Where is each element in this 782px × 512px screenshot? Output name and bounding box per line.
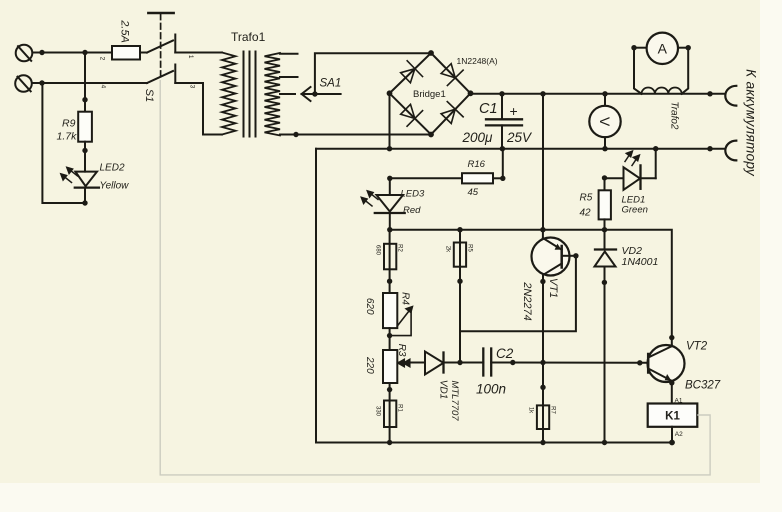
svg-text:R4: R4: [399, 292, 410, 305]
LED LED2: [75, 172, 99, 203]
selector SA1 arrow: [302, 87, 341, 101]
relay coil K1: [648, 404, 698, 443]
bias rail y230: [390, 230, 672, 346]
left control-loop vertical: [315, 149, 317, 443]
ammeter right lead down: [682, 48, 689, 94]
svg-text:330: 330: [374, 406, 380, 417]
wire VD1 node to C2: [460, 362, 483, 364]
bottom rail: [316, 442, 672, 444]
svg-text:R3: R3: [396, 344, 407, 357]
svg-text:+: +: [510, 103, 518, 119]
transformer Trafo2 winding humps: [642, 87, 682, 93]
svg-text:200μ: 200μ: [462, 130, 494, 145]
svg-text:2.5A: 2.5A: [119, 19, 131, 43]
wire VT1 base loop: [460, 256, 576, 331]
svg-text:Red: Red: [403, 205, 421, 216]
transformer Trafo1 primary winding: [222, 53, 236, 135]
wire LED3 top from R16: [389, 178, 391, 195]
svg-text:K1: K1: [665, 411, 680, 423]
wire secondary bottom to bridge: [280, 134, 431, 136]
svg-text:Green: Green: [622, 205, 648, 216]
svg-text:2k: 2k: [444, 246, 450, 253]
svg-text:LED3: LED3: [401, 189, 425, 200]
svg-text:42: 42: [580, 208, 592, 219]
transformer Trafo1 secondary winding: [265, 53, 281, 136]
output connector top: [725, 86, 736, 106]
svg-text:R5: R5: [580, 193, 593, 204]
svg-text:25V: 25V: [506, 130, 533, 145]
ammeter left lead down: [634, 48, 642, 94]
svg-text:S1: S1: [143, 89, 155, 102]
potentiometer R4: [383, 293, 397, 350]
svg-text:C2: C2: [496, 346, 514, 361]
bridge diode bottom-left: [398, 102, 423, 127]
wire R3 wiper to VD1: [399, 362, 425, 364]
svg-text:1k: 1k: [527, 407, 533, 414]
LED2 emission arrows: [61, 167, 78, 182]
secondary tap stub top: [280, 53, 298, 55]
potentiometer R3: [383, 350, 397, 401]
svg-text:Trafo1: Trafo1: [231, 30, 266, 44]
LED1 emission arrows: [625, 151, 639, 165]
svg-text:LED2: LED2: [100, 163, 125, 174]
svg-text:C1: C1: [479, 101, 498, 117]
svg-text:3: 3: [188, 85, 195, 89]
bridge Bridge1 diamond edges: [390, 53, 471, 135]
svg-text:VT2: VT2: [686, 341, 708, 353]
svg-text:1N4001: 1N4001: [622, 256, 659, 268]
wire LED2 return loop: [42, 83, 85, 203]
svg-text:1: 1: [187, 55, 194, 59]
transistor VT2: [648, 345, 685, 404]
svg-text:1.7k: 1.7k: [57, 131, 78, 143]
output connector bottom: [725, 141, 736, 161]
svg-text:VT1: VT1: [547, 278, 559, 298]
wire VT1 collector supply: [542, 94, 544, 230]
diode VD2: [595, 230, 617, 443]
relay control link wire (gray): [160, 80, 710, 475]
svg-text:680: 680: [374, 245, 380, 256]
wire bridge left vertex down to minus rail: [389, 93, 391, 148]
svg-text:R5: R5: [466, 244, 472, 252]
svg-text:R9: R9: [62, 118, 76, 130]
bridge diode top-left: [398, 61, 423, 86]
resistor R16: [390, 149, 503, 184]
switch S1 mechanical link dashed: [160, 14, 162, 80]
wire line2 terminal to switch: [32, 82, 147, 84]
svg-text:Bridge1: Bridge1: [413, 89, 446, 100]
switch S1 pole 1: [147, 35, 222, 53]
svg-text:220: 220: [364, 356, 375, 374]
R3 wiper arrows: [398, 359, 410, 366]
LED LED3: [375, 195, 405, 230]
LED LED1: [605, 149, 656, 190]
plus rail: [471, 93, 726, 95]
resistor R9: [78, 53, 92, 172]
resistor R8 emitter: [537, 405, 549, 442]
svg-text:SA1: SA1: [320, 78, 342, 90]
ammeter PA1: [634, 33, 688, 64]
svg-text:BC327: BC327: [685, 380, 721, 392]
switch S1 actuator T-bar: [148, 12, 173, 15]
svg-text:К аккумулятору: К аккумулятору: [743, 69, 758, 177]
svg-text:MTL7707: MTL7707: [449, 380, 460, 421]
input terminal X1: [16, 45, 33, 62]
secondary tap stub selected: [280, 93, 295, 95]
wire C2 to VT2 base: [491, 362, 648, 364]
svg-text:VD1: VD1: [438, 380, 449, 399]
wire switch pole2 to primary bottom: [203, 83, 222, 135]
bridge diode top-right: [438, 61, 463, 86]
bridge diode bottom-right: [438, 102, 463, 127]
capacitor C2: [483, 349, 491, 376]
resistor R7 bias: [454, 230, 466, 363]
secondary tap stub middle: [280, 76, 298, 78]
R4 wiper arm: [390, 307, 413, 336]
svg-text:620: 620: [364, 298, 375, 315]
minus rail: [316, 148, 726, 150]
svg-text:Yellow: Yellow: [100, 181, 130, 192]
svg-text:A: A: [658, 41, 668, 57]
wire line1 terminal to fuse: [33, 52, 113, 54]
transformer Trafo1 core: [244, 52, 256, 137]
svg-text:4: 4: [99, 85, 106, 89]
input terminal X2: [15, 75, 32, 92]
svg-text:45: 45: [468, 187, 479, 198]
switch S1 pole 2: [147, 65, 203, 84]
resistor R1: [384, 401, 396, 443]
svg-text:A1: A1: [675, 398, 683, 405]
voltmeter PV1: [589, 94, 620, 149]
svg-text:V: V: [597, 117, 613, 127]
capacitor C1: [486, 94, 522, 149]
diode VD1: [425, 352, 460, 375]
svg-text:R2: R2: [397, 244, 403, 252]
resistor R5: [599, 178, 611, 230]
svg-text:Trafo2: Trafo2: [668, 101, 679, 130]
resistor R2: [384, 230, 396, 293]
wire SA1 to bridge top: [315, 53, 431, 94]
svg-text:R1: R1: [397, 404, 403, 412]
svg-text:2N2274: 2N2274: [521, 281, 533, 321]
transistor VT1: [532, 230, 576, 406]
fuse FU1 2.5A: [112, 46, 147, 60]
svg-text:2: 2: [99, 57, 106, 61]
svg-text:100n: 100n: [476, 382, 506, 397]
svg-text:R16: R16: [468, 159, 486, 170]
LED3 emission arrows: [361, 191, 378, 206]
svg-text:1N2248(A): 1N2248(A): [457, 56, 498, 66]
svg-text:A2: A2: [675, 431, 683, 438]
svg-text:R7: R7: [549, 406, 555, 414]
